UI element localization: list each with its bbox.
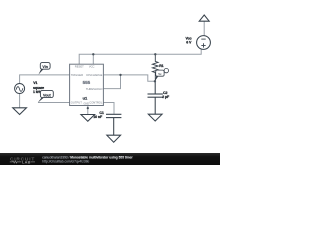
svg-text:RESET: RESET [75, 64, 84, 68]
svg-text:Vout: Vout [43, 93, 52, 97]
svg-text:u1: u1 [83, 95, 88, 100]
svg-text:GND: GND [84, 103, 90, 106]
svg-text:LAB: LAB [22, 161, 31, 165]
svg-text:V1: V1 [33, 81, 37, 85]
svg-text:10 nF: 10 nF [93, 115, 103, 119]
svg-text:OUTPUT: OUTPUT [71, 101, 82, 105]
svg-text:6 V: 6 V [186, 41, 192, 45]
svg-text:DISCHARGE: DISCHARGE [86, 73, 102, 77]
svg-text:TRIGGER: TRIGGER [71, 73, 83, 77]
svg-text:Vin: Vin [42, 65, 48, 69]
svg-text:555: 555 [83, 80, 91, 85]
svg-text:http://circuitlab.com/c/7qv4tz: http://circuitlab.com/c/7qv4tz38e [42, 160, 89, 164]
svg-text:Vc: Vc [158, 72, 162, 76]
svg-text:THRESHOLD: THRESHOLD [86, 87, 103, 91]
svg-text:CONTROL: CONTROL [89, 101, 103, 105]
svg-text:2 µF: 2 µF [162, 95, 170, 99]
svg-text:Vcc: Vcc [185, 36, 191, 40]
svg-text:R1: R1 [159, 64, 163, 68]
svg-text:VCC: VCC [89, 64, 95, 68]
